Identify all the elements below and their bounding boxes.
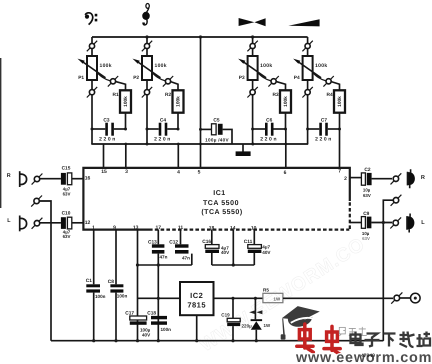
svg-text:P1: P1 [78, 75, 84, 81]
svg-text:C17: C17 [125, 310, 134, 316]
svg-text:C8: C8 [108, 279, 114, 285]
svg-text:220µ: 220µ [242, 323, 253, 328]
svg-text:100n: 100n [161, 327, 172, 332]
svg-text:220n: 220n [99, 136, 117, 142]
svg-text:7815: 7815 [187, 301, 206, 310]
svg-text:40V: 40V [262, 250, 271, 255]
svg-text:C1: C1 [86, 278, 92, 284]
svg-text:C4: C4 [160, 117, 166, 123]
svg-text:(TCA 5550): (TCA 5550) [201, 208, 242, 216]
svg-text:R1: R1 [113, 92, 119, 98]
svg-text:100n: 100n [95, 294, 106, 299]
svg-text:63V: 63V [63, 234, 71, 239]
svg-text:100k: 100k [176, 96, 182, 107]
svg-text:P3: P3 [239, 75, 245, 81]
svg-text:C2: C2 [364, 167, 370, 173]
svg-text:47n: 47n [160, 255, 168, 260]
svg-text:100n: 100n [117, 294, 128, 299]
svg-text:6: 6 [284, 170, 287, 176]
svg-text:IC2: IC2 [190, 291, 203, 300]
svg-text:R2: R2 [165, 92, 171, 98]
svg-text:1W: 1W [264, 323, 271, 328]
svg-text:40V: 40V [221, 250, 230, 255]
svg-text:L: L [7, 218, 11, 224]
svg-text:12: 12 [85, 220, 91, 226]
svg-text:C5: C5 [213, 117, 219, 123]
svg-text:L: L [421, 220, 425, 226]
svg-text:C6: C6 [266, 117, 272, 123]
svg-text:C9: C9 [363, 211, 369, 217]
svg-text:C19: C19 [221, 312, 230, 317]
svg-text:P2: P2 [133, 75, 139, 81]
svg-text:15: 15 [101, 169, 107, 175]
svg-text:100k: 100k [283, 96, 289, 107]
svg-text:R3: R3 [273, 92, 279, 98]
svg-text:C18: C18 [147, 310, 156, 316]
svg-text:4µ7: 4µ7 [262, 245, 270, 250]
svg-text:C10: C10 [62, 211, 71, 217]
svg-text:5: 5 [198, 170, 201, 176]
svg-text:220n: 220n [315, 136, 333, 142]
svg-text:16: 16 [85, 176, 91, 182]
svg-text:P4: P4 [294, 75, 300, 81]
svg-text:C15: C15 [62, 166, 71, 172]
svg-text:C11: C11 [244, 239, 253, 245]
svg-text:C7: C7 [321, 117, 327, 123]
svg-text:C12: C12 [169, 240, 178, 246]
svg-text:100k: 100k [337, 96, 343, 107]
svg-text:3: 3 [125, 169, 128, 175]
svg-text:100k: 100k [100, 63, 112, 69]
svg-text:100k: 100k [155, 63, 167, 69]
svg-text:C13: C13 [148, 240, 157, 246]
svg-text:IC1: IC1 [213, 190, 225, 197]
svg-text:63V: 63V [362, 236, 370, 241]
svg-text:40V: 40V [142, 332, 151, 337]
svg-text:220n: 220n [260, 136, 278, 142]
svg-text:63V: 63V [63, 192, 71, 197]
svg-text:R4: R4 [327, 92, 333, 98]
svg-text:100k: 100k [315, 63, 327, 69]
svg-text:R: R [421, 175, 425, 181]
svg-text:47n: 47n [182, 255, 190, 260]
svg-text:47049: 47049 [361, 353, 375, 359]
svg-text:100k: 100k [260, 63, 272, 69]
svg-text:R5: R5 [263, 288, 269, 293]
svg-text:1W: 1W [274, 297, 281, 302]
svg-text:7: 7 [338, 169, 341, 175]
svg-text:220n: 220n [154, 136, 172, 142]
svg-text:100µ /40V: 100µ /40V [205, 137, 229, 142]
svg-text:63V: 63V [363, 193, 371, 198]
svg-text:TCA 5500: TCA 5500 [203, 200, 239, 207]
svg-text:2: 2 [344, 176, 347, 182]
svg-text:C3: C3 [103, 117, 109, 123]
svg-text:4: 4 [177, 170, 180, 176]
svg-text:C16: C16 [202, 239, 211, 245]
svg-text:100k: 100k [123, 96, 129, 107]
svg-text:R: R [7, 173, 11, 179]
